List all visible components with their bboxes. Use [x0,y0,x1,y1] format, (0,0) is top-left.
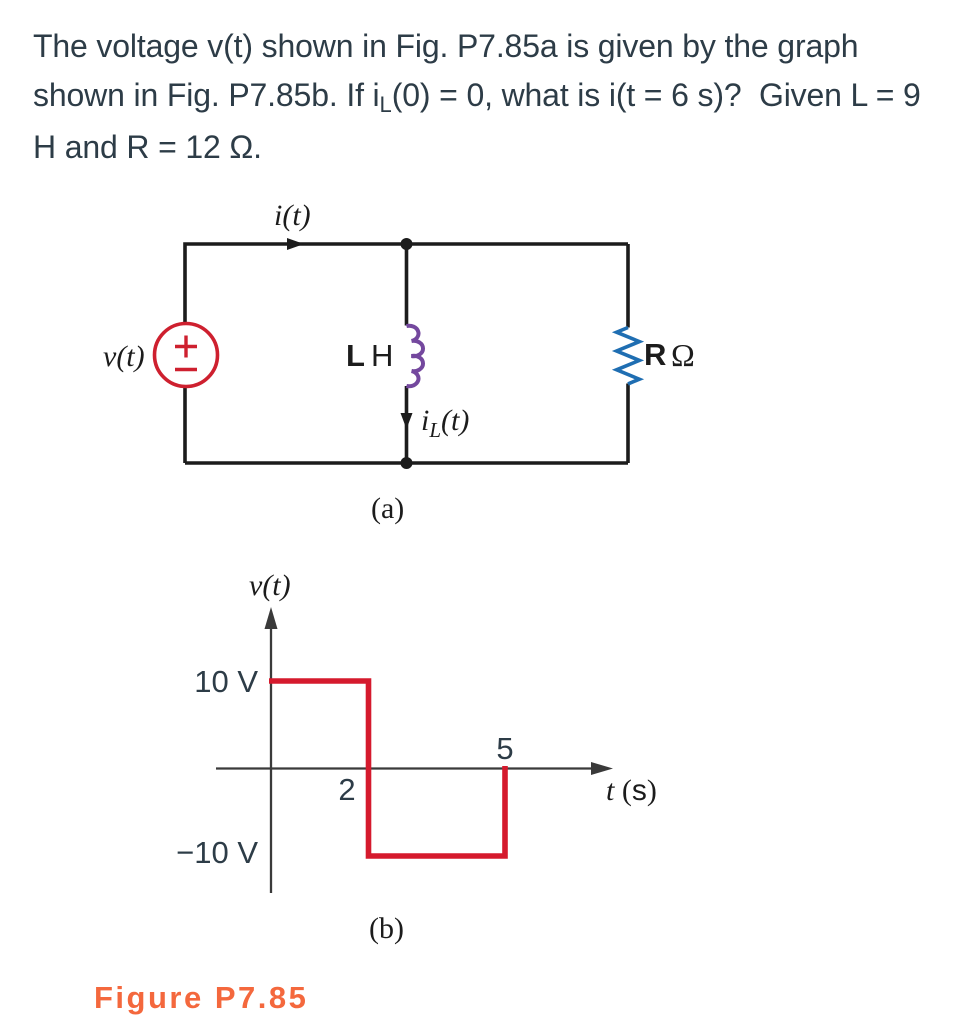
wire: top horizontal wire of circuit (a) [183,388,187,463]
graph vertical axis v(t) [270,628,272,893]
graph horizontal axis arrowhead [591,762,613,775]
svg-text:5: 5 [496,731,513,766]
graph horizontal axis t [216,767,594,769]
current arrow iL(t) below inductor [401,413,413,429]
svg-text:Ω: Ω [671,337,695,373]
svg-text:t (s): t (s) [606,774,657,807]
wire: middle branch upper segment [405,244,409,326]
resistor R1 zigzag [617,328,640,384]
svg-text:(b): (b) [369,912,404,945]
figure caption Figure P7.85 [94,980,308,1016]
wire: right vertical lower segment [626,384,630,464]
inductor L1 coil [407,326,424,387]
svg-text:−10 V: −10 V [176,835,258,870]
svg-text:v(t): v(t) [249,569,291,602]
svg-text:i(t): i(t) [274,199,311,232]
voltage source V1 circle [155,324,218,387]
svg-text:10 V: 10 V [194,664,258,699]
problem statement text [33,22,933,172]
waveform v(t) red square wave [269,681,505,856]
svg-text:2: 2 [338,772,355,807]
voltage source plus sign [175,336,197,358]
wire: left vertical upper segment [185,244,628,322]
svg-text:(a): (a) [371,492,404,525]
svg-text:v(t): v(t) [103,340,145,373]
voltage source minus sign [175,368,197,371]
graph vertical axis arrowhead [265,607,278,629]
wire: middle branch lower segment [405,386,409,463]
svg-text:LH: LH [346,338,393,373]
svg-text:iL(t): iL(t) [421,404,469,442]
svg-text:R: R [644,337,666,372]
wire: bottom horizontal wire [185,461,628,465]
node A : top junction dot [401,238,413,250]
node B : bottom junction dot [401,457,413,469]
wire: right vertical upper segment [626,244,630,328]
current arrow i(t) on top wire [287,238,304,250]
